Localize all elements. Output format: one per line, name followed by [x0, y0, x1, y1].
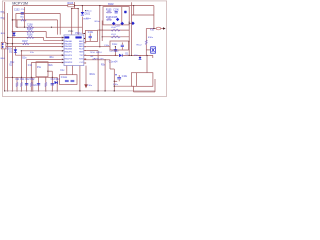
svg-text:R105: R105: [27, 29, 33, 31]
svg-text:R103: R103: [68, 2, 74, 5]
svg-text:R107: R107: [22, 41, 28, 43]
svg-text:R1xx: R1xx: [87, 11, 93, 13]
svg-text:R1x: R1x: [50, 57, 55, 59]
svg-text:T1x: T1x: [90, 56, 95, 58]
svg-text:C108: C108: [27, 24, 33, 26]
svg-text:C1x: C1x: [60, 70, 65, 72]
svg-text:R10x: R10x: [90, 74, 96, 76]
svg-text:C106: C106: [113, 9, 119, 11]
svg-text:ABCD-123: ABCD-123: [92, 58, 104, 61]
svg-text:R10x: R10x: [148, 37, 154, 39]
svg-text:R1x2: R1x2: [137, 45, 143, 47]
svg-text:R11: R11: [20, 79, 25, 81]
svg-text:C2x: C2x: [33, 85, 38, 87]
svg-text:D101: D101: [85, 14, 91, 16]
svg-text:MCPY3M: MCPY3M: [12, 2, 28, 6]
svg-text:R12: R12: [30, 79, 35, 81]
svg-text:TX10: TX10: [90, 52, 96, 54]
svg-text:RB2/TX: RB2/TX: [65, 59, 73, 61]
svg-text:B102: B102: [108, 4, 114, 6]
svg-text:RB3/RX: RB3/RX: [65, 62, 73, 64]
svg-text:L101: L101: [111, 34, 117, 36]
svg-text:D10x: D10x: [113, 84, 119, 86]
svg-text:B1xx: B1xx: [86, 18, 92, 20]
svg-text:L100: L100: [111, 27, 117, 29]
svg-text:RA3/A3: RA3/A3: [65, 48, 73, 51]
svg-text:C10x: C10x: [122, 76, 128, 78]
svg-text:S1x: S1x: [30, 52, 35, 54]
svg-text:C1x: C1x: [109, 51, 114, 53]
svg-text:R106: R106: [27, 35, 33, 37]
svg-text:C1xxx: C1xxx: [61, 77, 68, 79]
svg-text:RB0/P5: RB0/P5: [65, 52, 73, 54]
svg-text:P1x: P1x: [37, 67, 42, 69]
svg-text:D10x: D10x: [7, 48, 13, 50]
svg-text:RX10: RX10: [96, 52, 102, 54]
svg-text:R2x: R2x: [49, 65, 54, 67]
svg-text:PIC1x: PIC1x: [75, 33, 82, 35]
svg-text:C1x: C1x: [28, 65, 33, 67]
svg-text:U10x: U10x: [68, 31, 74, 33]
svg-text:F10: F10: [150, 30, 155, 32]
svg-text:C1xx: C1xx: [112, 44, 118, 46]
svg-text:C1x: C1x: [21, 9, 26, 11]
svg-text:D3x: D3x: [22, 57, 27, 59]
svg-text:RB1/P6: RB1/P6: [65, 55, 73, 57]
svg-text:R1x: R1x: [10, 62, 15, 64]
svg-text:C10x: C10x: [88, 32, 94, 34]
svg-text:C10: C10: [116, 25, 121, 27]
svg-text:C10x: C10x: [87, 85, 93, 87]
svg-text:R105: R105: [106, 9, 112, 11]
svg-text:C102: C102: [14, 10, 20, 12]
